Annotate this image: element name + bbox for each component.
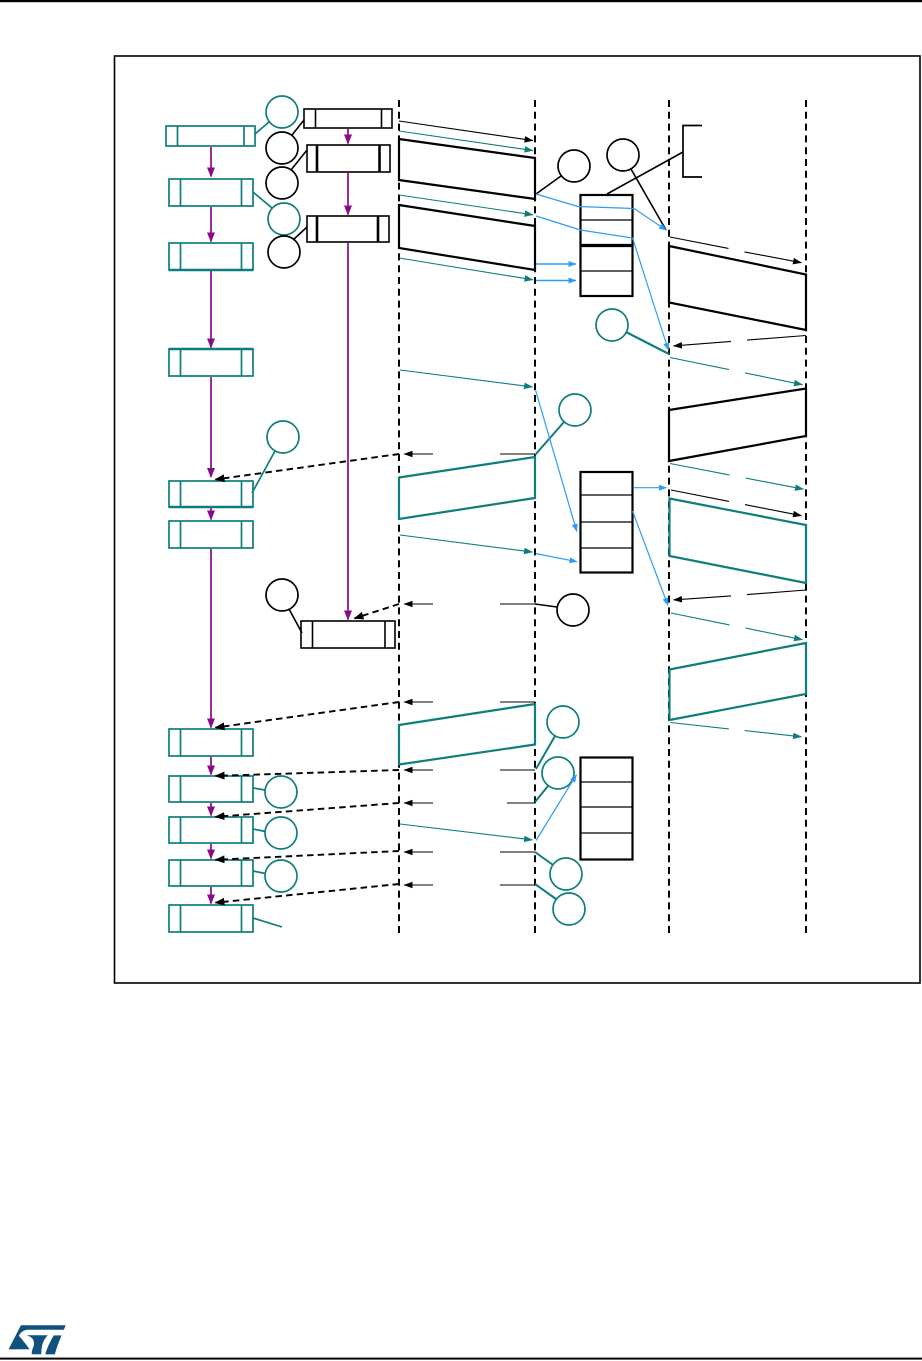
blue arrow ll2 to table2 row4: [536, 554, 578, 562]
teal process box 6: [169, 521, 253, 548]
dashed handoff arrow ll1 to boxD: [355, 604, 400, 618]
dashed handoff arrow ll1 to box8: [216, 770, 400, 776]
dashed handoff arrow ll1 to box9: [216, 803, 400, 817]
black process box B: [307, 145, 390, 172]
teal message arrow ll1-ll2 f: [400, 824, 533, 840]
leader box 10 to C10: [253, 871, 266, 874]
purple arrow box10 to box11: [210, 887, 212, 904]
leader T1 to box 1: [255, 122, 269, 134]
black burst parallelogram P3 ll3-ll4: [669, 246, 806, 330]
teal message arrow ll3-ll4 t3: [671, 613, 803, 640]
black message arrow ll3-ll4 r1: [670, 237, 802, 263]
black burst parallelogram P4 ll3-ll4 reversed: [669, 389, 806, 462]
black callout circle D1: [558, 150, 590, 182]
teal callout circle T3: [559, 394, 591, 426]
purple arrow box7 to box8: [210, 757, 212, 775]
leader box 9 to C9: [253, 829, 266, 832]
dashed handoff arrow ll1 to box7: [216, 702, 400, 728]
teal callout circle T2b: [596, 309, 628, 341]
black process box C: [307, 216, 389, 242]
teal message arrow ll3-ll4 t4: [671, 723, 802, 737]
bracket callout top right: [683, 126, 702, 178]
purple arrow box1 to box2: [210, 147, 212, 177]
leader box 8 to C8: [253, 788, 265, 790]
black burst parallelogram P1 ll1-ll2: [399, 139, 535, 199]
lifeline 1: [398, 100, 400, 933]
black return arrow ll2-ll1 y454: [404, 453, 535, 455]
teal burst parallelogram TP1 ll1-ll2: [399, 457, 535, 519]
blue arrow ll2 to table3: [536, 775, 577, 841]
teal callout circle E3: [550, 858, 582, 890]
teal burst parallelogram TP2 ll1-ll2: [399, 704, 535, 765]
teal process box 5: [169, 481, 253, 507]
black burst parallelogram P2 ll1-ll2: [399, 205, 535, 270]
purple arrow boxA to boxB: [347, 129, 349, 144]
leader T2b to lifeline 3: [626, 332, 669, 354]
teal process box 3: [169, 243, 253, 270]
blue relay line ll2 to table1 to ll3 a: [536, 194, 667, 230]
purple arrow box2 to box3: [210, 207, 212, 242]
black message arrow ll1-ll2 top: [399, 121, 533, 141]
leader T4 to box 5: [252, 451, 275, 493]
teal process box 8: [169, 776, 253, 802]
table 1: [581, 195, 633, 296]
header rule top: [0, 0, 922, 2]
black callout circle F: [557, 594, 589, 626]
leader T3 to lifeline 2: [535, 422, 564, 455]
leader K3 to box C: [293, 227, 307, 240]
purple arrow box5 to box6: [210, 508, 212, 520]
black return arrow ll2-ll1 y803: [404, 802, 535, 804]
dashed handoff arrow ll1 to box11: [216, 884, 400, 903]
teal callout circle E4: [553, 893, 585, 925]
lifeline 4: [805, 100, 807, 933]
leader box 2 to T2: [253, 192, 272, 208]
teal process box 10: [169, 860, 253, 886]
leader K1 to box A: [292, 120, 304, 135]
black return arrow ll2-ll1 y604: [404, 603, 535, 605]
teal callout circle T2: [268, 203, 300, 235]
leader E1 to lifeline 2: [536, 736, 555, 769]
teal message arrow ll1-ll2 d: [400, 370, 533, 387]
footer rule bottom: [0, 1358, 922, 1360]
teal callout circle T1: [266, 96, 298, 128]
lifeline 2: [534, 100, 536, 933]
teal process box 1: [166, 126, 255, 146]
black return arrow ll2-ll1 y770: [404, 769, 535, 771]
teal process box 11: [169, 905, 253, 932]
teal callout circle T4: [267, 421, 299, 453]
teal callout circle C8: [265, 776, 297, 808]
black callout circle K2: [266, 167, 298, 199]
purple arrow box4 to box5: [210, 377, 212, 477]
table 2: [581, 472, 633, 573]
teal burst parallelogram TP4 ll3-ll4 reversed: [670, 643, 807, 720]
teal message arrow ll1-ll2 a: [399, 131, 533, 151]
teal message arrow ll3-ll4 t2: [670, 464, 804, 490]
black callout circle G: [266, 579, 298, 611]
purple arrow box9 to box10: [210, 844, 212, 859]
black return arrow ll2-ll1 y885: [404, 884, 535, 886]
leader box 11 stub: [253, 918, 282, 927]
leader D1 to lifeline 2: [536, 176, 561, 194]
figure frame: [115, 56, 921, 983]
teal process box 9: [169, 817, 253, 843]
table 3: [581, 758, 633, 860]
blue arrow table2 to ll3: [633, 487, 667, 489]
purple arrow box6 to box7: [210, 549, 212, 728]
purple arrow box8 to box9: [210, 803, 212, 816]
black message arrow ll4-ll3 L1: [674, 336, 807, 346]
dashed handoff arrow ll1 to box10: [216, 851, 400, 860]
leader F to lifeline 2: [535, 604, 557, 607]
lifeline 3: [668, 100, 670, 933]
black callout circle K3: [268, 236, 300, 268]
blue arrow ll2 to table1 row4: [536, 280, 576, 282]
leader K2 to box B: [291, 150, 307, 170]
leader D2 to lifeline 3: [631, 169, 666, 230]
teal message arrow ll1-ll2 c: [399, 258, 533, 280]
black callout circle K1: [266, 132, 298, 164]
blue line table2 to ll3 low: [633, 511, 669, 606]
bracket leader line: [607, 152, 683, 194]
black return arrow ll2-ll1 y852: [404, 851, 535, 853]
teal callout circle C10: [265, 860, 297, 892]
black callout circle D2: [607, 139, 639, 171]
black return arrow ll2-ll1 y702: [404, 701, 535, 703]
teal message arrow ll3-ll4 t1: [670, 358, 803, 385]
teal callout circle C9: [265, 817, 297, 849]
blue arrow ll2 to table1 row3: [536, 263, 576, 265]
purple arrow boxB to boxC: [347, 173, 349, 215]
leader G to box D: [289, 609, 302, 633]
teal burst parallelogram TP3 ll3-ll4: [670, 499, 807, 584]
leader E2 to lifeline 2: [535, 786, 548, 802]
blue relay line ll2 to table1 to ll3 b: [536, 216, 669, 351]
ST logo: [9, 1325, 66, 1354]
blue arrow ll2 to table2 row3: [536, 390, 577, 532]
teal process box 2: [169, 179, 253, 206]
black process box D: [301, 621, 395, 648]
leader E4 to lifeline 2: [535, 884, 556, 899]
teal callout circle E1: [547, 706, 579, 738]
teal message arrow ll1-ll2 e: [400, 535, 533, 552]
black message arrow ll3-ll4 r2: [671, 490, 802, 516]
teal process box 7: [169, 729, 253, 756]
teal callout circle E2: [542, 757, 574, 789]
teal process box 4: [169, 349, 253, 376]
black message arrow ll4-ll3 L2: [674, 590, 807, 600]
teal message arrow ll1-ll2 b: [399, 195, 533, 215]
purple arrow box3 to box4: [210, 271, 212, 348]
dashed handoff arrow ll1 to box5: [216, 454, 400, 480]
black process box A: [304, 109, 392, 128]
leader E3 to lifeline 2: [535, 852, 553, 865]
purple arrow boxC to boxD: [347, 243, 349, 620]
